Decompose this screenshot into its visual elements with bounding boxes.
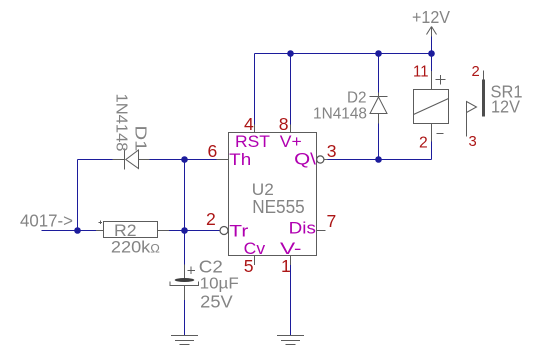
svg-text:1: 1 — [281, 256, 291, 276]
svg-text:11: 11 — [413, 64, 429, 81]
svg-text:7: 7 — [327, 211, 337, 231]
svg-text:3: 3 — [327, 141, 337, 161]
svg-text:220kΩ: 220kΩ — [111, 239, 160, 257]
svg-text:2: 2 — [419, 135, 428, 152]
svg-text:V-: V- — [280, 239, 302, 258]
svg-text:C2: C2 — [199, 257, 223, 277]
svg-text:D1: D1 — [132, 126, 149, 152]
svg-text:4017->: 4017-> — [20, 211, 73, 231]
svg-text:1N4148: 1N4148 — [113, 94, 130, 152]
svg-text:Q\: Q\ — [294, 150, 316, 169]
svg-text:Dis: Dis — [289, 219, 316, 238]
svg-text:V+: V+ — [280, 132, 302, 151]
svg-text:R2: R2 — [114, 221, 137, 240]
svg-text:12V: 12V — [491, 98, 521, 117]
svg-text:3: 3 — [469, 134, 477, 150]
svg-text:NE555: NE555 — [252, 196, 305, 217]
svg-text:1N4148: 1N4148 — [313, 106, 367, 123]
svg-text:25V: 25V — [200, 293, 233, 312]
svg-text:Cv: Cv — [244, 239, 266, 258]
svg-text:2: 2 — [206, 209, 216, 229]
svg-text:Th: Th — [229, 150, 251, 169]
svg-text:10µF: 10µF — [200, 276, 239, 293]
svg-text:2: 2 — [472, 64, 480, 80]
svg-text:Tr: Tr — [229, 222, 249, 241]
svg-text:+12V: +12V — [412, 7, 450, 27]
svg-text:5: 5 — [244, 256, 254, 276]
svg-text:6: 6 — [208, 141, 218, 161]
svg-text:RST: RST — [235, 132, 270, 151]
svg-text:D2: D2 — [347, 90, 367, 107]
